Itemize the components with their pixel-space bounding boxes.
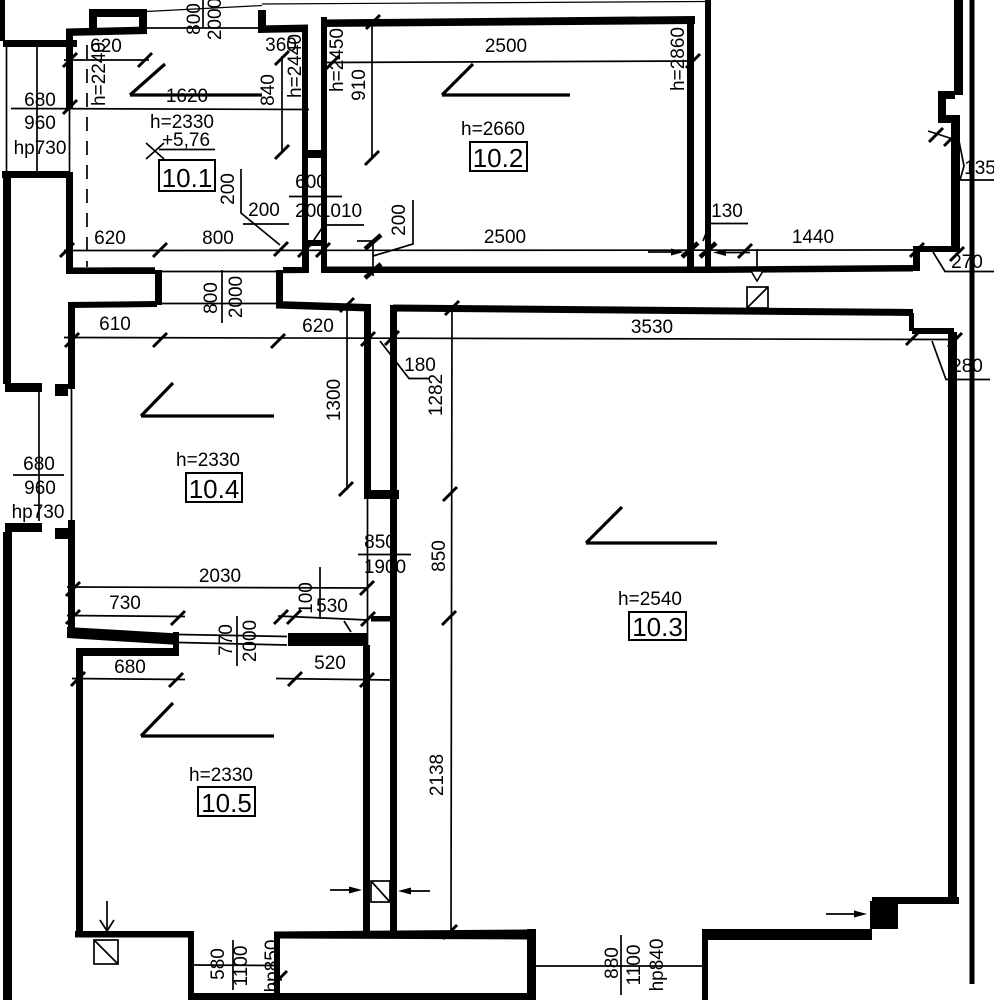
svg-text:680: 680 bbox=[24, 90, 56, 111]
wire: top door leaf line bbox=[146, 6, 262, 12]
wall: niche right jamb bbox=[321, 246, 325, 267]
wall: room 10.3 right wall bbox=[948, 332, 957, 904]
svg-text:270: 270 bbox=[951, 252, 983, 273]
label: 270 with underline and leader bbox=[933, 252, 994, 272]
label: 280 with underline and leader bbox=[932, 341, 990, 380]
wall: right jamb drop wall of bottom window bbox=[274, 938, 280, 1000]
svg-text:10.2: 10.2 bbox=[473, 143, 524, 173]
tick marks on L1 bbox=[60, 243, 74, 257]
wire: window2 glass line bbox=[38, 392, 40, 521]
wall: window2 top inner stub bbox=[55, 384, 68, 396]
wall: room 10.1 top wall right segment bbox=[258, 25, 308, 34]
wall: room 10.3 top wall bbox=[393, 305, 913, 317]
wire: neighbour building line at far right bbox=[970, 0, 975, 984]
wall: left exterior wall upper section bbox=[3, 178, 11, 384]
dimension line L8 across y338 bbox=[64, 338, 957, 340]
leader: 200 at 10.2 bottom wall bbox=[373, 200, 413, 256]
wire: opening line bottom of 10.3 bbox=[536, 965, 702, 967]
svg-text:620: 620 bbox=[90, 36, 122, 57]
wall: room 10.1 right wall bbox=[302, 30, 308, 267]
wall: room 10.4 left wall upper bbox=[68, 303, 75, 389]
svg-text:1300: 1300 bbox=[324, 379, 345, 421]
svg-text:850: 850 bbox=[429, 540, 450, 572]
wall: step wall segment right of 10.3 bbox=[912, 328, 954, 334]
dimension line: 840 vertical bbox=[281, 56, 283, 153]
wire: channel left thin line bbox=[367, 499, 369, 648]
wall: room 10.1 top wall left segment bbox=[66, 27, 147, 37]
arrow to black square D bbox=[826, 913, 862, 915]
wall: jamb right of top doorway bbox=[258, 10, 266, 31]
wall: step wall at 10.3 bottom right bbox=[872, 897, 959, 904]
wall: room 10.1 left wall lower bbox=[66, 172, 73, 274]
wall: bottom strip bar bbox=[189, 993, 536, 1000]
dimension line L6: h-zone line in 10.1 and window1 fraction bar bbox=[11, 109, 309, 110]
wire: doorway opening bottom line bbox=[162, 303, 276, 305]
wall: room 10.2 right wall (wall A) bbox=[687, 19, 694, 272]
wall: notch top arm bbox=[938, 91, 955, 99]
svg-text:h=2860: h=2860 bbox=[668, 27, 689, 91]
wall: room 10.4 bottom wall left segment bbox=[67, 627, 179, 645]
wall: window1 top cap bbox=[3, 40, 77, 47]
wall: shaft right bar bbox=[139, 9, 147, 33]
wall: room 10.4 left wall lower bbox=[68, 520, 75, 632]
label: 135 with line and leader bbox=[928, 131, 959, 141]
wall: bottom wall band across channel and 10.3 left bbox=[274, 930, 527, 940]
wall: channel closure below 10.4 right wall bbox=[364, 490, 399, 499]
tick marks 910 bbox=[366, 15, 380, 29]
svg-text:100: 100 bbox=[296, 582, 317, 614]
svg-text:800: 800 bbox=[184, 3, 205, 35]
tick marks on L8 bbox=[65, 333, 79, 347]
svg-text:h=2540: h=2540 bbox=[618, 589, 682, 610]
svg-text:610: 610 bbox=[99, 314, 131, 335]
wall: drop wall at x702 bbox=[702, 940, 708, 1000]
ventilation symbol C below 10.5 bbox=[94, 940, 118, 964]
svg-text:1900: 1900 bbox=[364, 557, 406, 578]
slope symbol room 10.1 with 1620 bbox=[130, 64, 165, 95]
tick marks on wall x70 window1 bbox=[63, 100, 77, 114]
ventilation symbol B in channel with arrows bbox=[371, 881, 390, 902]
svg-text:hp840: hp840 bbox=[647, 939, 668, 992]
tick marks 135 bbox=[929, 128, 943, 142]
wire: 10.4 left wall window thin line bbox=[71, 389, 73, 520]
wall: room 10.4 top wall left segment bbox=[68, 301, 157, 308]
svg-text:200: 200 bbox=[218, 173, 239, 205]
wall: drop wall below 10.5 bottom left bbox=[188, 931, 194, 1000]
svg-text:910: 910 bbox=[349, 69, 370, 101]
dimension line L10: 730 bbox=[67, 616, 185, 617]
arrows at 130 slot bbox=[648, 251, 677, 253]
wall: right exterior wall mid bbox=[951, 123, 960, 251]
svg-text:200: 200 bbox=[389, 204, 410, 236]
svg-text:1010: 1010 bbox=[320, 201, 362, 222]
svg-text:10.5: 10.5 bbox=[201, 788, 252, 818]
wall: door jamb right (10.1/10.4 doorway) bbox=[276, 270, 283, 305]
svg-text:h=2330: h=2330 bbox=[176, 450, 240, 471]
svg-text:10.1: 10.1 bbox=[162, 163, 213, 193]
dimension line L9: 2030 bbox=[67, 587, 368, 588]
wall: shaft closure between 10.1 and 10.2 bbox=[308, 150, 324, 158]
wall: channel closure bar at y616 bbox=[371, 616, 392, 622]
wall: corridor bottom wall to jog bbox=[711, 265, 913, 273]
svg-text:h=2440: h=2440 bbox=[285, 34, 306, 98]
dimension line: 910 vertical bbox=[371, 24, 373, 158]
tick marks 1300 bbox=[340, 298, 354, 312]
svg-text:10.4: 10.4 bbox=[189, 474, 240, 504]
wall: bottom wall of room 10.2 (right of slot) bbox=[321, 267, 711, 274]
svg-text:hp730: hp730 bbox=[14, 138, 67, 159]
wall: room 10.2 left wall bbox=[321, 17, 327, 267]
svg-text:3530: 3530 bbox=[631, 317, 673, 338]
wire: 10.4/10.5 doorway line upper bbox=[179, 635, 287, 637]
leader for 530 bbox=[344, 621, 351, 632]
wall: shaft left bar bbox=[89, 9, 97, 30]
wall: drop wall at x527 bbox=[527, 929, 536, 1000]
svg-text:h=2330: h=2330 bbox=[189, 765, 253, 786]
svg-text:hp730: hp730 bbox=[12, 502, 65, 523]
wall: niche top bar above bottom wall bbox=[305, 240, 325, 246]
svg-text:h=2450: h=2450 bbox=[327, 28, 348, 92]
svg-text:880: 880 bbox=[602, 947, 623, 979]
wire: doorway opening top line bbox=[162, 271, 276, 273]
tick mark on L1 at door jamb x373 (fat) bbox=[365, 235, 381, 249]
dimension line: 1300 vertical in 10.4 bbox=[346, 303, 348, 490]
tick marks 840 bbox=[275, 51, 289, 65]
svg-text:130: 130 bbox=[711, 201, 743, 222]
svg-text:840: 840 bbox=[258, 74, 279, 106]
ventilation symbol D: solid black square bbox=[870, 901, 898, 929]
wall: door jamb left (10.1/10.4 doorway) bbox=[155, 270, 162, 305]
svg-text:680: 680 bbox=[23, 454, 55, 475]
svg-text:960: 960 bbox=[24, 478, 56, 499]
wall: window1 bottom cap bbox=[2, 171, 70, 178]
svg-text:730: 730 bbox=[109, 593, 141, 614]
svg-text:2500: 2500 bbox=[485, 36, 527, 57]
svg-text:2500: 2500 bbox=[484, 227, 526, 248]
dimension line L3: 620 top of 10.1 bbox=[64, 59, 149, 61]
wall: room 10.4 top wall right segment bbox=[276, 301, 368, 312]
leader: 200 in room 10.1 pointing to wall corner bbox=[241, 169, 280, 245]
svg-text:800: 800 bbox=[201, 282, 222, 314]
tick marks 680/520 bbox=[71, 672, 85, 686]
svg-text:580: 580 bbox=[208, 948, 229, 980]
wall: upper wall segment from jog to exterior bbox=[913, 246, 958, 252]
svg-text:h=2660: h=2660 bbox=[461, 119, 525, 140]
dimension line L12a: 680 bottom of 10.5 bbox=[72, 679, 185, 680]
wall: shaft top bar bbox=[89, 9, 147, 17]
tick marks 1282/850/2138 bbox=[445, 301, 459, 315]
wall: jog vertical connector at x913 bbox=[913, 246, 920, 271]
wall: corridor wall B bbox=[705, 0, 711, 267]
wall: room 10.1 left wall upper bbox=[66, 29, 73, 108]
dimension line L12b: 520 bbox=[276, 679, 392, 681]
svg-text:2000: 2000 bbox=[240, 620, 261, 662]
wall: notch bottom arm bbox=[938, 115, 960, 123]
svg-text:180: 180 bbox=[404, 355, 436, 376]
wall: door jamb (10.4/10.5 doorway) bbox=[173, 632, 179, 656]
wall: left exterior wall lower section bbox=[3, 532, 12, 1000]
ventilation symbol A with diagonal bbox=[747, 287, 768, 308]
slope symbol room 10.5 bbox=[141, 703, 173, 736]
slope symbol room 10.3 bbox=[586, 507, 622, 543]
wall: right exterior wall upper bbox=[954, 0, 963, 95]
wire: 10.4/10.5 doorway line lower bbox=[179, 643, 287, 646]
wire: window1 glass line bbox=[36, 47, 38, 172]
svg-text:800: 800 bbox=[202, 228, 234, 249]
wall: room 10.5 left wall bbox=[76, 656, 83, 937]
dimension line: window2 fraction bar bbox=[13, 474, 64, 476]
dimension line: 1282/850/2138 vertical in 10.3 bbox=[451, 307, 452, 932]
wall: room 10.5 bottom wall bbox=[75, 931, 191, 938]
tick marks 2030/730 bbox=[66, 582, 80, 596]
wall: bottom wall of rooms 10.1 (y267 band, left of slot) bbox=[68, 267, 155, 274]
wall: room 10.2 top wall bbox=[322, 16, 695, 27]
svg-text:135: 135 bbox=[964, 158, 994, 179]
svg-text:2138: 2138 bbox=[427, 754, 448, 796]
svg-text:620: 620 bbox=[94, 228, 126, 249]
dashed line in room 10.1 bbox=[86, 45, 88, 267]
svg-text:2030: 2030 bbox=[199, 566, 241, 587]
exterior wall top-left corner stub bbox=[0, 0, 5, 41]
svg-text:600: 600 bbox=[295, 172, 327, 193]
slope symbol room 10.2 bbox=[442, 64, 473, 95]
wall: step connector at 10.3 top right bbox=[909, 313, 914, 331]
entrance arrow with hollow head below corridor wall bbox=[756, 249, 758, 270]
svg-text:200: 200 bbox=[248, 200, 280, 221]
svg-text:520: 520 bbox=[314, 653, 346, 674]
dimension line L1 across y250 bbox=[64, 249, 920, 252]
wall: room 10.4 right wall bbox=[364, 304, 371, 499]
wall: window2 bottom cap bbox=[5, 523, 42, 532]
svg-text:530: 530 bbox=[316, 596, 348, 617]
svg-text:+5,76: +5,76 bbox=[162, 130, 210, 151]
svg-text:620: 620 bbox=[302, 316, 334, 337]
wire: top doorway opening line bbox=[147, 27, 258, 29]
dimension line L2: 2500 top of 10.2 bbox=[327, 61, 694, 63]
svg-text:770: 770 bbox=[216, 624, 237, 656]
wall: room 10.3 left wall bbox=[390, 305, 397, 932]
svg-text:2000: 2000 bbox=[205, 0, 226, 40]
leader line of 600/200 bbox=[305, 198, 307, 241]
dimension line L11: 100/530 bbox=[278, 616, 368, 620]
wall: room 10.5 right wall bbox=[363, 645, 370, 931]
svg-text:1440: 1440 bbox=[792, 227, 834, 248]
svg-text:10.3: 10.3 bbox=[632, 612, 683, 642]
svg-text:850: 850 bbox=[364, 532, 396, 553]
svg-text:1620: 1620 bbox=[166, 86, 208, 107]
wall: pier between doorway and channel bbox=[288, 633, 367, 646]
wall: notch left arm bbox=[938, 99, 946, 116]
wall: window2 bottom inner stub bbox=[55, 528, 68, 539]
svg-text:1282: 1282 bbox=[426, 374, 447, 416]
tick marks 100/530 bbox=[274, 610, 288, 624]
svg-text:960: 960 bbox=[24, 113, 56, 134]
wire: sill line bottom left bbox=[193, 964, 275, 967]
wall: 10.3 bottom wall right segment bbox=[702, 929, 872, 940]
down arrow in room 10.5 bbox=[106, 901, 108, 929]
svg-text:1100: 1100 bbox=[624, 945, 645, 986]
wall: niche left jamb bbox=[305, 246, 309, 267]
wall: room 10.5 top wall left segment bbox=[76, 648, 173, 656]
wall: window2 top cap bbox=[5, 383, 42, 392]
wire: window1 outer face line bbox=[6, 47, 8, 172]
wire: room 10.1 left wall window thin line bbox=[69, 108, 71, 172]
wire: top thin wall line to the right bbox=[262, 2, 705, 5]
svg-text:680: 680 bbox=[114, 657, 146, 678]
svg-text:280: 280 bbox=[951, 356, 983, 377]
wire: stub and jamb line at x373 bbox=[357, 240, 372, 242]
svg-text:2000: 2000 bbox=[226, 276, 247, 318]
tick marks on L3 and L2 bbox=[63, 53, 77, 67]
slope symbol room 10.4 bbox=[141, 383, 173, 416]
